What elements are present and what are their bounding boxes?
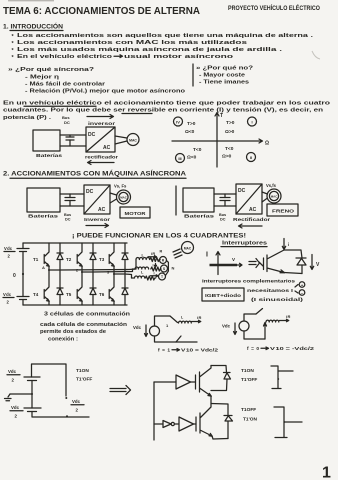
svg-text:V dc: V dc (3, 292, 12, 297)
emitter wire (284, 273, 302, 274)
svg-text:Ω<0: Ω<0 (185, 129, 195, 135)
svg-text:¡ PUEDE FUNCIONAR EN LOS 4 CUA: ¡ PUEDE FUNCIONAR EN LOS 4 CUADRANTES! (72, 233, 246, 240)
svg-text:En el vehículo eléctrico: En el vehículo eléctrico (17, 54, 113, 60)
svg-text:Vs, Fs: Vs, Fs (114, 184, 127, 189)
middle captions (40, 312, 130, 343)
svg-text:FRENO: FRENO (272, 209, 294, 215)
wire gate T1 (191, 381, 196, 383)
svg-text:Ω: Ω (265, 141, 269, 147)
svg-text:conexión :: conexión : (48, 337, 78, 343)
freewheel riser arrow (264, 323, 267, 340)
input wire (153, 382, 155, 440)
svg-text:potencia (P) .: potencia (P) . (3, 115, 52, 121)
waveform pulse 2 (274, 407, 302, 438)
svg-text:Los accionamientos son aquello: Los accionamientos son aquellos que tien… (17, 33, 314, 39)
current arrow iR (280, 319, 289, 321)
wire bottom (155, 336, 198, 342)
wire top (244, 314, 256, 321)
ground (5, 394, 12, 401)
svg-text:TEMA 6: ACCIONAMIENTOS DE ALTE: TEMA 6: ACCIONAMIENTOS DE ALTERNA (3, 5, 200, 17)
node II circled (247, 153, 256, 162)
node 0 (22, 273, 24, 275)
svg-text:AC: AC (249, 207, 257, 213)
svg-text:inversor: inversor (88, 121, 116, 126)
svg-text:cada célula de conmutación: cada célula de conmutación (40, 322, 127, 328)
machine MAC (127, 134, 139, 146)
svg-text:- Más fácil de controlar: - Más fácil de controlar (25, 82, 105, 88)
svg-text:T1ON: T1ON (241, 368, 254, 374)
transistor T6 (109, 274, 114, 305)
transistor T1 (44, 243, 49, 270)
wire bottom rail (60, 145, 86, 147)
svg-text:Ω>0: Ω>0 (222, 154, 232, 160)
emitter to next stage wire (210, 396, 212, 403)
node I circled (248, 117, 257, 126)
wire phase 3 (114, 274, 132, 278)
machine MAC (182, 242, 194, 254)
svg-text:Interruptores complementarios: Interruptores complementarios (202, 279, 296, 284)
svg-text:R: R (160, 250, 163, 254)
svg-text:Inversor: Inversor (84, 217, 110, 222)
current arrow iT (151, 275, 159, 277)
svg-text:DC: DC (88, 132, 96, 138)
node 3 (113, 273, 115, 275)
switch f' open (176, 336, 181, 342)
divider wire (175, 186, 177, 215)
top bus wire (23, 242, 127, 244)
svg-text:DC: DC (64, 120, 70, 125)
inverter block U1 (86, 127, 115, 152)
svg-text:V 10 = -Vdc/2: V 10 = -Vdc/2 (270, 346, 314, 352)
svg-text:i R: i R (197, 315, 201, 320)
svg-text:T1ON: T1ON (76, 368, 89, 374)
svg-text:Vs,fs: Vs,fs (266, 183, 277, 188)
phase node T (159, 273, 166, 280)
diode D1 (57, 243, 63, 270)
svg-text:V: V (232, 257, 235, 262)
wire top rail (60, 134, 86, 136)
svg-text:1. INTRODUCCIÓN: 1. INTRODUCCIÓN (3, 22, 63, 31)
capacitor bus DC (66, 135, 74, 146)
why not block (193, 64, 253, 86)
node minus (299, 290, 305, 296)
node 2 (81, 271, 83, 273)
machine label MAC right (173, 242, 194, 259)
top rail (284, 250, 302, 258)
diode D (296, 258, 306, 274)
wire phase 2 (82, 269, 133, 272)
svg-text:» ¿Por qué no?: » ¿Por qué no? (196, 66, 253, 72)
svg-text:Vdc: Vdc (11, 405, 20, 410)
svg-text:T1'OFF: T1'OFF (76, 377, 92, 383)
transistor T1 drv (196, 366, 212, 397)
machine MAC double circle (267, 189, 281, 203)
battery top (17, 248, 29, 250)
battery block Baterias (33, 130, 60, 151)
battery block (183, 188, 214, 212)
wire phase 1 (49, 260, 136, 271)
svg-text:Baterías: Baterías (28, 214, 59, 219)
node plus (299, 282, 305, 288)
section 2 heading (3, 170, 187, 179)
source V2 (239, 321, 249, 331)
svg-text:I: I (251, 120, 252, 125)
battery B2 (24, 407, 41, 409)
svg-text:i R: i R (286, 314, 290, 319)
MOTOR box (120, 207, 150, 218)
load branch S : inductor L2 + resistor R2 (133, 267, 162, 271)
arrow implies (249, 259, 260, 268)
svg-text:Interruptores: Interruptores (222, 241, 267, 247)
svg-text:A: A (42, 265, 45, 270)
bullet list (12, 33, 314, 61)
battery bottom (17, 296, 29, 298)
wires inverter to machine (115, 136, 127, 138)
svg-text:Baterías: Baterías (36, 153, 63, 158)
diode D4 (57, 270, 63, 305)
svg-text:Los accionamientos con MAC los: Los accionamientos con MAC los más utili… (17, 40, 247, 46)
svg-text:permite dos estados de: permite dos estados de (40, 329, 106, 335)
svg-text:0: 0 (13, 273, 16, 279)
IGBT+diodo box (202, 288, 244, 301)
bottom bus wire (23, 304, 127, 306)
svg-text:T1'ON: T1'ON (243, 417, 257, 423)
load branch R : inductor L1 + resistor R1 (136, 258, 160, 262)
wire top (155, 316, 171, 326)
svg-text:- Mejor η: - Mejor η (25, 75, 59, 81)
wire bottom (32, 412, 89, 418)
complementary text (202, 279, 305, 303)
svg-text:En un vehículo eléctrico el ac: En un vehículo eléctrico el accionamient… (3, 101, 331, 107)
page curl shadow (312, 51, 320, 59)
svg-text:II: II (250, 155, 252, 160)
transistor T5 (77, 272, 82, 305)
dc rail wire (22, 243, 24, 249)
wire to buffer A1 (154, 381, 176, 383)
diode D5 (90, 272, 96, 305)
wires to machine (262, 192, 268, 194)
axis omega horizontal (172, 139, 263, 143)
svg-text:T5: T5 (66, 292, 72, 297)
svg-text:rectificador: rectificador (85, 155, 118, 160)
top rail 2 (211, 404, 228, 416)
transistor T2 (77, 243, 82, 272)
current arrow is (155, 264, 157, 268)
svg-text:Vdc: Vdc (222, 324, 231, 329)
inverter block (84, 185, 110, 214)
svg-text:N: N (172, 266, 175, 271)
svg-text:usual motor asíncrono: usual motor asíncrono (124, 54, 234, 60)
svg-text:T2: T2 (66, 257, 72, 262)
svg-text:T<0: T<0 (193, 147, 202, 153)
wire gate T1' (194, 423, 197, 425)
svg-text:IV: IV (176, 120, 180, 125)
I V axes (216, 252, 220, 275)
svg-text:(I sinusoidal): (I sinusoidal) (251, 297, 304, 302)
paragraph (3, 101, 331, 122)
buffer A2 (175, 417, 194, 431)
svg-text:MAC: MAC (184, 247, 192, 251)
branch labels (141, 250, 163, 276)
svg-text:Bus: Bus (219, 213, 226, 217)
switch f open (256, 309, 263, 315)
labels for IGBTs (33, 257, 105, 297)
dc mid rail (31, 381, 33, 409)
svg-text:DC: DC (65, 218, 71, 222)
svg-text:i: i (154, 271, 155, 275)
phase node R (160, 257, 167, 264)
svg-text:AC: AC (103, 145, 111, 151)
battery B1 (24, 376, 40, 378)
source V1 (150, 326, 160, 336)
svg-text:Ω<0: Ω<0 (187, 155, 197, 161)
equivalence marks (173, 249, 182, 258)
NOT gate G1 (163, 421, 171, 428)
diode D2 (90, 243, 96, 272)
wire neutral N (166, 261, 169, 276)
ground wire (10, 393, 32, 395)
diode D6 (122, 274, 128, 305)
svg-text:i: i (153, 263, 154, 267)
svg-text:T>0: T>0 (226, 120, 235, 126)
switch f closed (170, 316, 178, 323)
svg-text:DC: DC (238, 188, 246, 194)
svg-text:MOTOR: MOTOR (125, 211, 147, 217)
transistor T4 (44, 270, 49, 305)
svg-text:AC: AC (98, 207, 106, 213)
header (3, 3, 320, 17)
svg-text:T1'OFF: T1'OFF (241, 377, 257, 383)
svg-text:necesitamos I: necesitamos I (247, 288, 293, 293)
svg-text:T1: T1 (33, 257, 39, 262)
diode D1 drv (211, 373, 231, 391)
svg-text:T>0: T>0 (187, 121, 196, 127)
svg-text:Rectificador: Rectificador (233, 217, 271, 222)
svg-text:MAC: MAC (271, 195, 278, 199)
svg-text:MAC: MAC (120, 196, 127, 200)
switch pole node (65, 397, 67, 399)
wires (214, 193, 236, 195)
capacitor bus DC (224, 194, 226, 198)
wire to NOT gate (154, 423, 163, 425)
svg-text:DC: DC (86, 189, 94, 195)
svg-text:T4: T4 (33, 292, 39, 297)
diode D3 (122, 243, 128, 274)
transistor T3 (109, 243, 114, 274)
svg-text:Vdc: Vdc (8, 369, 17, 374)
machine MAC double circle (117, 190, 131, 204)
inductor L (179, 321, 192, 323)
svg-text:- Mayor coste: - Mayor coste (199, 73, 245, 79)
voltage arrow V (310, 255, 313, 270)
svg-text:cuadrantes. Por lo que debe se: cuadrantes. Por lo que debe ser reversib… (3, 108, 323, 114)
svg-text:V dc: V dc (4, 246, 13, 251)
transistor T1' drv (196, 404, 212, 437)
svg-text:1: 1 (322, 465, 331, 480)
svg-text:T6: T6 (99, 292, 105, 297)
svg-text:V 10 = Vdc/2: V 10 = Vdc/2 (181, 348, 218, 354)
inductor L (266, 320, 279, 322)
switch cell igbt+diode (259, 239, 320, 274)
label output Vdc/2 (71, 399, 84, 413)
svg-text:Vdc: Vdc (133, 325, 142, 330)
label Vdc/2 lower (10, 405, 23, 419)
load branch T : inductor L3 + resistor R3 (132, 276, 156, 280)
diode D2 drv (224, 416, 233, 439)
wires to machine (110, 193, 117, 195)
bottom wire (212, 436, 228, 439)
svg-text:PROYECTO VEHÍCULO ELÉCTRICO: PROYECTO VEHÍCULO ELÉCTRICO (228, 3, 320, 12)
svg-text:T<0: T<0 (225, 146, 234, 152)
label Vdc/2 top (4, 246, 15, 259)
top rail 1 (211, 366, 227, 373)
current arrow i (282, 239, 285, 250)
svg-text:» ¿Por qué síncrona?: » ¿Por qué síncrona? (8, 67, 94, 73)
svg-text:III: III (178, 156, 181, 161)
axis T vertical (215, 113, 219, 168)
svg-text:T3: T3 (99, 257, 105, 262)
rectifier block (236, 184, 262, 214)
svg-text:3 células de conmutación: 3 células de conmutación (44, 312, 130, 318)
output node (66, 415, 68, 417)
arrow implies (110, 386, 131, 395)
current arrow iR (192, 320, 201, 322)
svg-text:Bus: Bus (64, 213, 71, 217)
wire bottom (244, 331, 265, 339)
wires (60, 193, 84, 195)
svg-text:Ω>0: Ω>0 (225, 129, 235, 135)
svg-text:T1OFF: T1OFF (241, 407, 256, 413)
current arrow iR (148, 256, 157, 258)
svg-text:Vdc: Vdc (72, 399, 81, 404)
capacitor bus DC (69, 194, 71, 198)
waveform pulse 1 (271, 366, 293, 389)
phase node S (161, 265, 168, 272)
node III circled (176, 154, 185, 163)
svg-text:MAC: MAC (129, 139, 137, 143)
svg-text:Los más usados máquina asíncro: Los más usados máquina asíncrona de jaul… (17, 47, 283, 53)
svg-text:- Tiene imanes: - Tiene imanes (199, 80, 249, 86)
wire top (32, 364, 67, 396)
svg-text:T: T (220, 113, 223, 119)
section 1 heading (3, 22, 63, 31)
small arrows (295, 285, 298, 294)
svg-text:Baterías: Baterías (184, 214, 215, 219)
svg-text:IGBT+diodo: IGBT+diodo (205, 293, 241, 299)
svg-text:I: I (206, 252, 208, 259)
label Vdc/2 upper (7, 369, 20, 383)
buffer A1 (176, 375, 191, 389)
battery block (27, 188, 60, 212)
svg-text:DC: DC (220, 218, 226, 222)
svg-text:- Relación (P/Vol.) mejor que: - Relación (P/Vol.) mejor que motor asín… (25, 89, 186, 95)
transistor T (259, 250, 285, 273)
svg-text:i: i (288, 242, 289, 247)
svg-text:2. ACCIONAMIENTOS CON MÁQUINA: 2. ACCIONAMIENTOS CON MÁQUINA ASÍNCRONA (3, 170, 187, 178)
node A (48, 269, 50, 271)
label Vdc/2 bottom (3, 292, 14, 305)
FRENO box (267, 204, 298, 216)
node IV circled (174, 117, 183, 126)
why synchronous block (8, 67, 186, 95)
